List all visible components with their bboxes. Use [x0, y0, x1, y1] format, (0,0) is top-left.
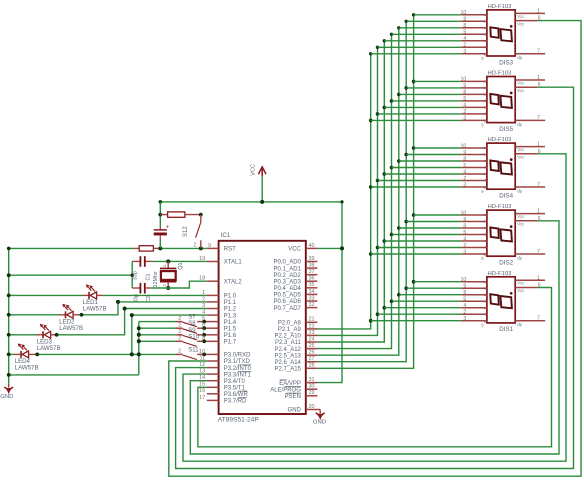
svg-text:DIS3: DIS3 — [499, 59, 513, 66]
svg-text:24: 24 — [309, 336, 315, 342]
svg-text:4: 4 — [463, 169, 466, 175]
svg-text:S7: S7 — [188, 315, 196, 321]
pin 12 P3.2/INT0 (left) — [199, 362, 251, 372]
pin 10 DIS5 segment a — [461, 77, 487, 84]
pin 8 DIS3 segment c — [461, 23, 487, 30]
svg-text:8: 8 — [202, 336, 205, 342]
pin 2 DIS2 segment f — [461, 243, 487, 250]
wire DIS5 segment d from bus — [392, 100, 462, 102]
wire DIS2 segment e from bus — [384, 240, 461, 242]
svg-text:P1.1: P1.1 — [224, 300, 237, 306]
junction VCC rail / arrow — [260, 200, 264, 204]
pin 28 P2.7_A15 (right) — [275, 363, 318, 373]
junction bus v6 / DIS4 — [404, 153, 408, 157]
junction RST/S12 bottom — [199, 246, 203, 250]
svg-text:22: 22 — [309, 323, 315, 329]
seven-segment glyph DIS2 — [490, 225, 512, 241]
svg-text:Vcc: Vcc — [517, 88, 525, 93]
pin 6 DIS1 Vcc — [515, 283, 541, 294]
wire DIS4 segment d from bus — [392, 167, 462, 169]
svg-text:23: 23 — [309, 330, 315, 336]
svg-text:Vcc: Vcc — [517, 155, 525, 160]
junction P1.3 corner — [130, 313, 134, 317]
svg-text:P1.4: P1.4 — [224, 320, 237, 326]
junction GND/LED2 — [7, 313, 11, 317]
svg-text:d: d — [484, 98, 486, 103]
svg-text:3: 3 — [463, 182, 466, 188]
junction bus v5 / DIS2 — [397, 226, 401, 230]
svg-text:P0.0_AD0: P0.0_AD0 — [274, 260, 302, 266]
pin 1 DIS3 Vcc — [515, 8, 545, 18]
svg-text:PSEN: PSEN — [285, 394, 301, 400]
pin 3 DIS2 segment g — [461, 249, 487, 256]
svg-text:32: 32 — [309, 302, 315, 308]
wire DIS1 segment d from bus — [392, 300, 462, 302]
svg-text:8: 8 — [463, 290, 466, 296]
svg-text:2: 2 — [178, 329, 181, 335]
pin 10 DIS2 segment a — [461, 210, 487, 217]
wire DIS4 segment b from bus — [406, 154, 461, 156]
svg-text:7: 7 — [537, 49, 540, 55]
wire XTAL1 net — [152, 260, 207, 262]
svg-text:RST: RST — [224, 247, 236, 253]
svg-text:Vcc: Vcc — [517, 214, 525, 219]
svg-text:c: c — [484, 292, 486, 297]
resistor R-top (rail to S12) — [160, 212, 201, 217]
svg-text:1: 1 — [537, 209, 540, 215]
svg-text:g: g — [484, 251, 486, 256]
svg-text:28: 28 — [309, 363, 315, 369]
svg-text:c: c — [484, 225, 486, 230]
wire DIS3 segment b from bus — [406, 20, 461, 22]
label DIS1 title HD-F103 — [488, 271, 513, 277]
svg-text:c: c — [484, 92, 486, 97]
wire DIS5 segment c from bus — [399, 93, 462, 95]
svg-text:2: 2 — [178, 323, 181, 329]
wire DIS3 common-anode net to P3 pin — [169, 21, 581, 477]
pin 9 DIS4 common (bottom) — [481, 189, 484, 194]
junction bus v1 / DIS5 — [369, 119, 373, 123]
svg-text:P0.5_AD5: P0.5_AD5 — [274, 293, 302, 299]
svg-text:dp: dp — [517, 255, 522, 260]
display DIS4 HD-F103 body — [487, 143, 515, 189]
svg-text:P2.4_A12: P2.4_A12 — [275, 347, 302, 353]
svg-text:5: 5 — [202, 316, 205, 322]
seven-segment glyph DIS3 — [490, 25, 512, 41]
svg-text:7: 7 — [537, 316, 540, 322]
svg-text:10: 10 — [461, 77, 467, 83]
pin 4 DIS5 segment e — [461, 103, 487, 110]
svg-text:38: 38 — [309, 263, 315, 269]
svg-text:IC1: IC1 — [221, 232, 231, 239]
svg-text:34: 34 — [309, 289, 315, 295]
svg-text:P1.0: P1.0 — [224, 294, 237, 300]
pin 9 RST (left) — [207, 243, 236, 253]
pin 4 P1.3 (left) — [202, 310, 237, 320]
svg-text:8: 8 — [463, 156, 466, 162]
label DIS4 — [499, 193, 513, 200]
wire DIS2 segment b from bus — [406, 221, 461, 223]
pin 4 DIS3 segment e — [461, 36, 487, 43]
wire S9 feed — [139, 334, 176, 336]
pin 8 DIS2 segment c — [461, 223, 487, 230]
pin 2 DIS4 segment f — [461, 176, 487, 183]
pin 1 DIS5 Vcc — [515, 75, 545, 85]
wire DIS5 segment b from bus — [406, 87, 461, 89]
svg-text:40: 40 — [309, 243, 315, 249]
svg-text:d: d — [484, 298, 486, 303]
junction bus v5 / DIS5 — [397, 93, 401, 97]
svg-text:P0.6_AD6: P0.6_AD6 — [274, 299, 302, 305]
junction GND/cap branch — [7, 273, 134, 277]
pin 29 PSEN (right) — [285, 390, 318, 400]
svg-text:10: 10 — [461, 10, 467, 16]
pin 9 DIS5 common (bottom) — [481, 122, 484, 127]
pin 8 P1.7 (left) — [202, 336, 237, 346]
svg-text:2: 2 — [463, 243, 466, 249]
svg-text:Vcc: Vcc — [517, 288, 525, 293]
junction bus v2 top corner — [376, 46, 379, 49]
pin 14 P3.4/T0 (left) — [199, 375, 245, 385]
svg-text:3: 3 — [202, 303, 205, 309]
pin 1 DIS1 Vcc — [515, 275, 545, 285]
svg-text:8: 8 — [463, 23, 466, 29]
svg-text:5: 5 — [463, 163, 466, 169]
wire DIS2 segment c from bus — [399, 227, 462, 229]
pin 2 DIS5 segment f — [461, 109, 487, 116]
pin 37 P0.2_AD2 (right) — [274, 269, 318, 279]
pin 5 DIS3 segment d — [461, 30, 487, 37]
svg-text:2: 2 — [463, 43, 466, 49]
pin 3 DIS4 segment g — [461, 182, 487, 189]
wire DIS5 common-anode net to P3 pin — [176, 87, 574, 468]
pin 4 DIS2 segment e — [461, 236, 487, 243]
junction bus v3 / DIS5 — [383, 106, 387, 110]
junction bus v2 / DIS1 — [376, 312, 380, 316]
wire DIS1 segment c from bus — [399, 294, 462, 296]
junction VCC vertical / pin40 branch — [340, 200, 344, 250]
svg-text:2: 2 — [463, 176, 466, 182]
svg-text:Vcc: Vcc — [517, 222, 525, 227]
pin 5 DIS4 segment d — [461, 163, 487, 170]
label DIS2 title HD-F103 — [488, 204, 513, 210]
svg-text:AT89S51-24P: AT89S51-24P — [218, 416, 260, 423]
wire DIS1 segment f from bus — [378, 313, 462, 315]
pin 9 DIS3 segment b — [461, 17, 487, 24]
svg-text:3: 3 — [463, 249, 466, 255]
pin 32 P0.7_AD7 (right) — [274, 302, 318, 312]
svg-text:36: 36 — [309, 276, 315, 282]
switch S7 — [176, 315, 207, 327]
junction rail/resistor R-top node — [158, 213, 162, 217]
svg-text:P1.3: P1.3 — [224, 313, 237, 319]
junction bus v1 / DIS1 — [369, 319, 373, 323]
pin 3 P1.2 (left) — [202, 303, 237, 313]
supply VCC arrow symbol — [251, 164, 266, 202]
crystal Q1 — [160, 261, 184, 288]
junction bus v4 / DIS5 — [390, 99, 394, 103]
junction bus/S10 — [137, 339, 141, 343]
svg-text:9: 9 — [463, 217, 466, 223]
wire RST net from GND bus — [9, 247, 134, 249]
junction bus v1 / DIS2 — [369, 252, 373, 256]
junction bus v4 top corner — [390, 33, 393, 36]
junction bus/S9 — [137, 333, 141, 337]
svg-text:C1: C1 — [146, 274, 152, 281]
pin 6 P1.5 (left) — [202, 323, 237, 333]
wire VCC rail top — [160, 201, 342, 203]
pin 2 DIS1 segment f — [461, 310, 487, 317]
wire cap-ground branch — [9, 261, 133, 288]
wire segment bus v2 (P2.2 net) — [317, 47, 377, 335]
pin 9 DIS1 common (bottom) — [481, 323, 484, 328]
svg-text:+: + — [166, 225, 169, 231]
wire DIS3 segment d from bus — [392, 33, 462, 35]
label IC1 — [221, 232, 231, 239]
svg-text:P0.7_AD7: P0.7_AD7 — [274, 306, 302, 312]
pin 1 P1.0 (left) — [202, 290, 237, 300]
led1 LED1 LAW57B — [83, 284, 107, 312]
svg-text:HD-F103: HD-F103 — [488, 137, 513, 143]
wire DIS1 segment a from bus — [414, 281, 462, 283]
svg-text:P1.6: P1.6 — [224, 333, 237, 339]
svg-text:17: 17 — [199, 395, 205, 401]
wire segment bus v7 (P2.7 net) — [317, 15, 413, 369]
svg-text:P1.7: P1.7 — [224, 340, 237, 346]
svg-text:4: 4 — [463, 236, 466, 242]
wire LED2 to P1.1 riser — [9, 302, 207, 315]
svg-text:9: 9 — [463, 284, 466, 290]
ground GND (left) — [0, 384, 13, 400]
svg-text:g: g — [484, 118, 486, 123]
wire DIS1 segment e from bus — [384, 307, 461, 309]
pin 9 DIS4 segment b — [461, 150, 487, 157]
pin 21 P2.0_A8 (right) — [278, 317, 318, 327]
label DIS3 — [499, 59, 513, 66]
svg-text:Q1: Q1 — [178, 262, 184, 269]
junction LED3 cathode node — [55, 333, 59, 337]
svg-text:VCC: VCC — [251, 164, 257, 176]
junction LED3 riser / P1.2 — [123, 307, 127, 311]
svg-text:P2.1_A9: P2.1_A9 — [278, 327, 302, 333]
svg-text:dp: dp — [517, 55, 522, 60]
svg-text:g: g — [484, 318, 486, 323]
svg-text:4: 4 — [463, 303, 466, 309]
svg-text:10: 10 — [199, 349, 205, 355]
junction bus v4 / DIS2 — [390, 233, 394, 237]
svg-text:9: 9 — [463, 17, 466, 23]
resistor R-reset (RST pulldown) — [134, 246, 160, 251]
junction bus/S8 — [137, 326, 141, 330]
svg-text:25: 25 — [309, 343, 315, 349]
svg-text:9: 9 — [208, 243, 211, 249]
pin 2 DIS3 segment f — [461, 43, 487, 50]
junction S10 right contact — [202, 339, 206, 343]
svg-text:DIS5: DIS5 — [499, 126, 513, 133]
svg-text:5: 5 — [463, 297, 466, 303]
junction bus v3 / DIS4 — [383, 172, 387, 176]
svg-text:3: 3 — [463, 316, 466, 322]
svg-text:10: 10 — [461, 277, 467, 283]
pin 3 DIS3 segment g — [461, 49, 487, 56]
pin 36 P0.3_AD3 (right) — [274, 276, 318, 286]
wire DIS1 segment g from bus — [371, 320, 462, 322]
svg-text:12Mhz: 12Mhz — [153, 271, 159, 287]
svg-text:VCC: VCC — [288, 247, 301, 253]
svg-text:30: 30 — [309, 384, 315, 390]
svg-text:ALE/PROG: ALE/PROG — [270, 387, 301, 393]
wire DIS3 segment f from bus — [378, 46, 462, 48]
svg-text:DIS4: DIS4 — [499, 193, 513, 200]
wire DIS3 segment g from bus — [371, 53, 462, 55]
pin 27 P2.6_A14 (right) — [275, 356, 318, 366]
svg-text:XTAL2: XTAL2 — [224, 279, 243, 285]
pin 17 P3.7/RD (left) — [199, 395, 247, 405]
junction LED2 cathode node — [80, 313, 84, 317]
junction XTAL1 / crystal top — [166, 259, 170, 263]
junction bus v2 / DIS2 — [376, 246, 380, 250]
pin 22 P2.1_A9 (right) — [278, 323, 318, 333]
pin 24 P2.3_A11 (right) — [275, 336, 317, 346]
wire DIS4 common-anode net to P3 pin — [183, 154, 566, 461]
wire DIS5 segment a from bus — [414, 80, 462, 82]
label DIS3 title HD-F103 — [488, 4, 513, 10]
display DIS2 HD-F103 body — [487, 210, 515, 256]
label C2 name — [146, 296, 152, 303]
wire DIS3 segment e from bus — [384, 40, 461, 42]
label C2 value 33p — [134, 294, 140, 303]
svg-text:P0.2_AD2: P0.2_AD2 — [274, 273, 302, 279]
svg-text:P3.6/WR: P3.6/WR — [224, 392, 249, 398]
svg-text:DIS2: DIS2 — [499, 260, 513, 267]
pin 34 P0.5_AD5 (right) — [274, 289, 318, 299]
pin 33 P0.6_AD6 (right) — [274, 295, 318, 305]
capacitor C2 — [132, 283, 152, 294]
switch S12 (reset) — [183, 215, 201, 249]
display DIS5 HD-F103 body — [487, 77, 515, 123]
svg-text:c: c — [484, 158, 486, 163]
junction LED4 anode node — [35, 353, 39, 357]
svg-text:P0.1_AD1: P0.1_AD1 — [274, 266, 302, 272]
svg-text:d: d — [484, 32, 486, 37]
pin 10 DIS3 segment a — [461, 10, 487, 17]
pin 19 XTAL1 (left) — [199, 256, 242, 266]
junction GND/LED1 — [7, 294, 11, 298]
svg-text:9: 9 — [463, 150, 466, 156]
wire segment bus v3 (P2.3 net) — [317, 41, 384, 342]
junction VCC rail left end — [159, 200, 163, 204]
svg-text:2: 2 — [178, 349, 181, 355]
svg-text:37: 37 — [309, 269, 315, 275]
svg-text:2: 2 — [178, 336, 181, 342]
switch S10 — [176, 334, 207, 346]
pin 3 DIS1 segment g — [461, 316, 487, 323]
svg-text:Vcc: Vcc — [517, 281, 525, 286]
wire DIS5 segment f from bus — [378, 113, 462, 115]
svg-text:GND: GND — [0, 394, 13, 400]
junction bus v7 top corner — [412, 13, 415, 16]
pin 7 DIS4 dp — [515, 182, 545, 194]
svg-text:HD-F103: HD-F103 — [488, 271, 513, 277]
junction XTAL2 / crystal bottom — [166, 286, 170, 290]
svg-text:7: 7 — [537, 249, 540, 255]
svg-text:P3.4/T0: P3.4/T0 — [224, 379, 246, 385]
wire RST to IC pin 9 — [160, 247, 207, 249]
svg-text:7: 7 — [537, 182, 540, 188]
junction bus v3 top corner — [383, 39, 386, 42]
label DIS5 title HD-F103 — [488, 71, 513, 77]
pin 13 P3.3/INT1 (left) — [199, 369, 251, 379]
svg-text:7: 7 — [202, 329, 205, 335]
svg-text:Vcc: Vcc — [517, 80, 525, 85]
wire DIS5 segment g from bus — [371, 119, 462, 121]
wire DIS5 segment e from bus — [384, 106, 461, 108]
junction bus v1 top corner — [369, 52, 372, 55]
svg-text:29: 29 — [309, 390, 315, 396]
svg-text:5: 5 — [463, 30, 466, 36]
svg-text:P3.0/RXD: P3.0/RXD — [224, 353, 251, 359]
svg-text:9: 9 — [463, 83, 466, 89]
svg-text:27: 27 — [309, 356, 315, 362]
wire S8 feed — [139, 327, 176, 329]
svg-text:2: 2 — [463, 109, 466, 115]
svg-text:P3.7/RD: P3.7/RD — [224, 399, 247, 405]
pin 8 DIS4 segment c — [461, 156, 487, 163]
junction GND / bottom return — [7, 373, 11, 377]
svg-text:4: 4 — [463, 103, 466, 109]
svg-text:P1.2: P1.2 — [224, 307, 237, 313]
svg-text:d: d — [484, 165, 486, 170]
pin 8 DIS1 segment c — [461, 290, 487, 297]
switch S9 — [176, 328, 207, 340]
pin 20 GND (right) — [288, 404, 318, 414]
svg-text:LAW57B: LAW57B — [59, 325, 83, 332]
junction bus v7 / DIS4 — [412, 146, 416, 150]
svg-text:20: 20 — [309, 404, 315, 410]
svg-text:dp: dp — [517, 122, 522, 127]
pin 6 DIS5 Vcc — [515, 82, 541, 93]
svg-text:P2.3_A11: P2.3_A11 — [275, 340, 302, 346]
label DIS1 — [499, 326, 513, 333]
junction bus v2 / DIS4 — [376, 179, 380, 183]
svg-text:10: 10 — [461, 143, 467, 149]
wire segment bus v5 (P2.5 net) — [317, 28, 398, 355]
wire DIS4 segment g from bus — [371, 186, 462, 188]
pin 7 DIS1 dp — [515, 316, 545, 328]
wire GND bus vertical (left) — [8, 248, 10, 383]
wire segment bus v4 (P2.4 net) — [317, 34, 391, 348]
pin 18 XTAL2 (left) — [199, 276, 242, 286]
wire DIS2 segment f from bus — [378, 247, 462, 249]
svg-text:19: 19 — [199, 256, 205, 262]
junction RST/cap bottom — [158, 246, 162, 250]
junction switch bus / LED4 row — [137, 352, 141, 356]
svg-text:6: 6 — [202, 323, 205, 329]
pin 11 P3.1/TXD (left) — [199, 355, 250, 365]
svg-text:2: 2 — [178, 316, 181, 322]
junction bus v6 top corner — [405, 20, 408, 23]
pin 9 DIS2 common (bottom) — [481, 256, 484, 261]
label Q1 value 12Mhz — [153, 271, 159, 287]
svg-text:S8: S8 — [188, 321, 196, 327]
wire P1.3 net with drop to switch row — [132, 315, 207, 354]
junction bus v5 top corner — [397, 26, 400, 29]
switch S11 — [176, 347, 207, 359]
svg-text:P0.4_AD4: P0.4_AD4 — [274, 286, 302, 292]
svg-text:31: 31 — [309, 377, 315, 383]
svg-text:dp: dp — [517, 188, 522, 193]
svg-text:P2.7_A15: P2.7_A15 — [275, 367, 302, 373]
